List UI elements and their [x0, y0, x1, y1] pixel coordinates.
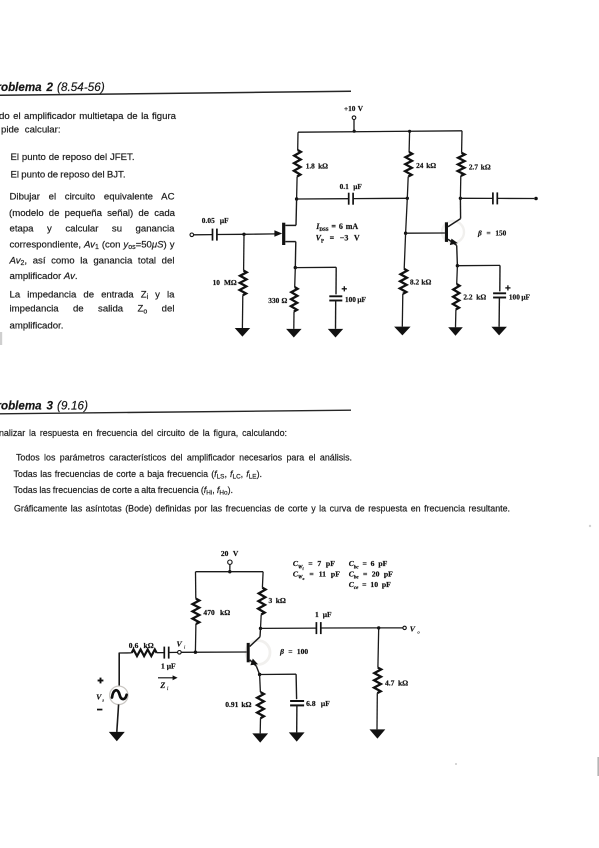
svg-text:correspondiente, Av1 (con yos=: correspondiente, Av1 (con yos=50μS) y: [10, 239, 175, 251]
svg-text:Dibujar el circuito equivalent: Dibujar el circuito equivalente AC: [10, 192, 175, 203]
svg-text:Av2, así como la ganancia tota: Av2, así como la ganancia total del: [9, 255, 175, 267]
svg-text:La impedancia de entrada Zi y: La impedancia de entrada Zi y la: [10, 289, 176, 301]
svg-text:amplificador Av.: amplificador Av.: [10, 271, 78, 282]
svg-text:Zi: Zi: [159, 681, 169, 692]
svg-text:Todas las frecuencias de corte: Todas las frecuencias de corte a baja fr…: [14, 469, 263, 481]
svg-text:Cce = 10 pF: Cce = 10 pF: [349, 580, 391, 591]
svg-text:0.05 μF: 0.05 μF: [202, 216, 229, 225]
svg-text:Gráficamente las asíntotas (Bo: Gráficamente las asíntotas (Bode) defini…: [14, 503, 510, 513]
svg-text:amplificador.: amplificador.: [10, 321, 64, 332]
svg-text:1.8 kΩ: 1.8 kΩ: [306, 161, 328, 170]
svg-text:Vo: Vo: [410, 625, 421, 635]
svg-text:100 μF: 100 μF: [509, 292, 531, 301]
svg-text:2.7 kΩ: 2.7 kΩ: [469, 162, 491, 171]
svg-text:VP = −3 V: VP = −3 V: [316, 234, 360, 245]
svg-text:470 kΩ: 470 kΩ: [203, 608, 230, 617]
svg-text:0.1 μF: 0.1 μF: [340, 182, 363, 191]
svg-text:(modelo de pequeña señal) de c: (modelo de pequeña señal) de cada: [9, 208, 176, 219]
svg-text:3 kΩ: 3 kΩ: [269, 596, 286, 605]
svg-text:nalizar la respuesta en frecue: nalizar la respuesta en frecuencia del c…: [0, 428, 287, 438]
svg-text:CWo = 11 pF: CWo = 11 pF: [293, 569, 340, 581]
svg-text:4.7 kΩ: 4.7 kΩ: [385, 678, 408, 687]
svg-text:+10 V: +10 V: [344, 104, 364, 113]
svg-text:roblema 2: roblema 2: [0, 81, 54, 94]
svg-text:0.6 kΩ: 0.6 kΩ: [129, 641, 154, 650]
svg-text:El punto de reposo del BJT.: El punto de reposo del BJT.: [11, 170, 126, 181]
svg-text:1 μF: 1 μF: [315, 610, 332, 619]
svg-text:β = 100: β = 100: [279, 647, 308, 656]
svg-text:330 Ω: 330 Ω: [268, 296, 287, 305]
svg-text:pide calcular:: pide calcular:: [1, 125, 61, 136]
svg-text:Todos los parámetros caracterí: Todos los parámetros característicos del…: [16, 452, 352, 462]
svg-text:IDSS = 6 mA: IDSS = 6 mA: [315, 222, 358, 233]
svg-text:20 V: 20 V: [221, 549, 239, 558]
svg-text:0.91 kΩ: 0.91 kΩ: [225, 700, 251, 709]
svg-text:El punto de reposo del JFET.: El punto de reposo del JFET.: [11, 152, 135, 163]
svg-text:6.8 μF: 6.8 μF: [306, 699, 330, 708]
svg-text:Vs: Vs: [96, 692, 104, 702]
svg-text:1 μF: 1 μF: [161, 661, 176, 670]
svg-text:24 kΩ: 24 kΩ: [416, 161, 436, 170]
svg-text:10 MΩ: 10 MΩ: [213, 278, 237, 287]
svg-text:(8.54-56): (8.54-56): [57, 81, 105, 94]
svg-text:Todas las frecuencias de corte: Todas las frecuencias de corte a alta fr…: [14, 485, 234, 497]
svg-text:100 μF: 100 μF: [345, 295, 367, 304]
svg-text:(9.16): (9.16): [57, 399, 88, 412]
svg-text:etapa y calcular su ganancia: etapa y calcular su ganancia: [10, 224, 176, 235]
svg-text:β = 150: β = 150: [477, 228, 507, 237]
svg-text:8.2 kΩ: 8.2 kΩ: [410, 278, 431, 287]
svg-text:roblema 3: roblema 3: [0, 399, 54, 412]
svg-text:impedancia de salida Zo del: impedancia de salida Zo del: [10, 304, 175, 316]
svg-text:2.2 kΩ: 2.2 kΩ: [463, 292, 486, 301]
svg-text:Vi: Vi: [177, 640, 187, 650]
svg-text:do el amplificador multietapa: do el amplificador multietapa de la figu…: [0, 111, 177, 122]
